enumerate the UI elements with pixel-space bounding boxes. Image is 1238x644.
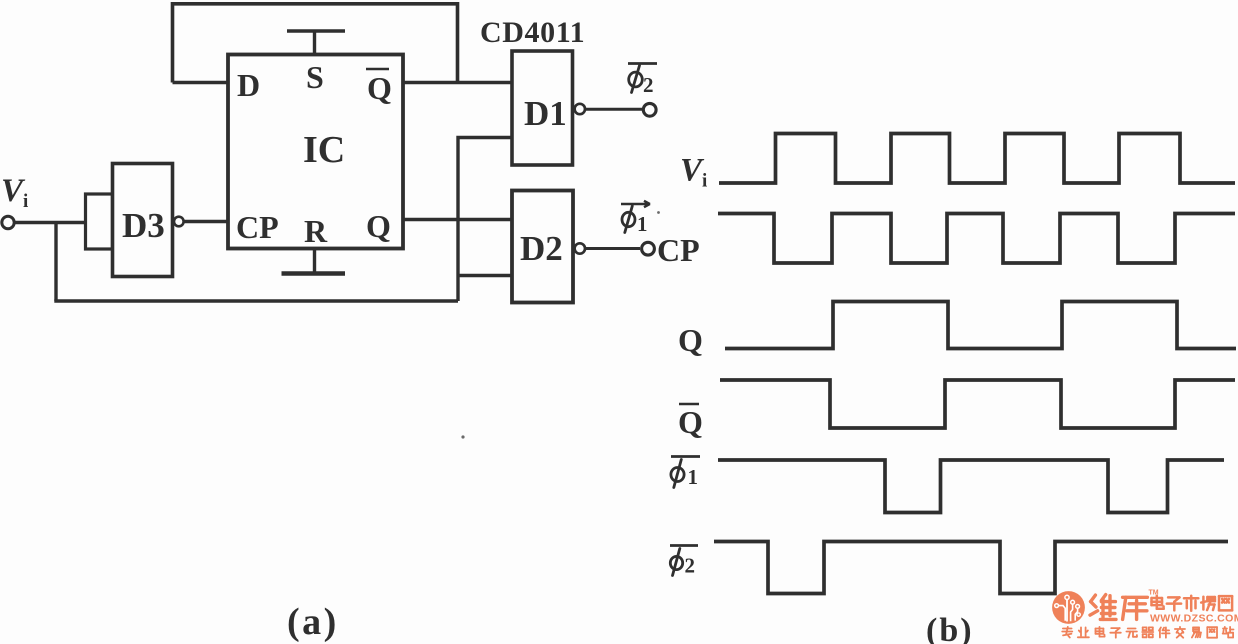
wire feedback loop Q-bar to D [173, 4, 458, 83]
NAND D3 input tab [86, 194, 113, 249]
waveform Q trace [725, 302, 1236, 349]
wire Q-bar to D1 [403, 81, 512, 84]
svg-text:R: R [304, 213, 328, 249]
waveform phi2-bar trace [714, 542, 1228, 594]
set terminal S stem [313, 31, 316, 55]
wire riser to D2 input [458, 274, 512, 277]
wire Vi to D3 [15, 221, 86, 224]
wire Vi branch down [54, 223, 57, 302]
input terminal Vi [2, 216, 14, 228]
waveform phi1-bar trace [718, 460, 1224, 513]
svg-text:Q: Q [678, 404, 703, 440]
waveform Q-bar label [679, 403, 699, 406]
svg-text:D1: D1 [524, 94, 567, 133]
svg-text:D2: D2 [520, 229, 563, 268]
wire D2 output [585, 247, 640, 250]
watermark slogan [1062, 627, 1233, 638]
svg-text:WWW.DZSC.COM: WWW.DZSC.COM [1150, 613, 1238, 625]
svg-text:Vi: Vi [1, 173, 28, 212]
terminal phi2 [643, 103, 656, 116]
watermark brand text 维库 [1090, 595, 1147, 620]
D3 output bubble [174, 217, 184, 227]
waveform CP trace [718, 214, 1235, 264]
wire D3 to CP pin [184, 220, 229, 223]
svg-text:Q: Q [366, 208, 391, 244]
svg-text:CD4011: CD4011 [480, 16, 585, 49]
svg-text:IC: IC [303, 129, 345, 171]
label phi2-bar [628, 62, 657, 65]
NAND D1 [512, 51, 573, 165]
svg-text:Q: Q [678, 322, 703, 358]
svg-text:1: 1 [688, 465, 699, 489]
svg-text:(b): (b) [926, 612, 974, 644]
svg-text:(a): (a) [287, 601, 339, 643]
watermark logo circle [1052, 591, 1085, 624]
NAND D3 [113, 164, 173, 277]
svg-text:D3: D3 [122, 206, 165, 245]
waveform Vi trace [719, 134, 1235, 184]
terminal phi1/CP [642, 242, 655, 255]
wire bottom rail [54, 299, 458, 302]
svg-text:Q: Q [367, 70, 392, 106]
D1 output bubble [575, 104, 585, 114]
D2 output bubble [575, 243, 585, 253]
reset terminal R stem [313, 249, 316, 274]
svg-text:1: 1 [637, 212, 648, 236]
flip-flop IC body [228, 55, 403, 249]
svg-text:D: D [237, 67, 260, 103]
waveform Q-bar trace [720, 380, 1235, 428]
waveform phi2-bar label [670, 544, 698, 547]
wire D input [173, 81, 229, 84]
svg-text:S: S [306, 59, 324, 95]
NAND D2 [512, 191, 573, 303]
label phi1-bar with arrow [621, 201, 650, 207]
svg-text:2: 2 [685, 554, 696, 578]
wire Q to D2 [403, 218, 512, 221]
svg-text:CP: CP [657, 232, 700, 268]
stray mark [461, 435, 464, 438]
wire D1 output [585, 108, 642, 111]
stray mark [657, 211, 660, 214]
waveform phi1-bar label [671, 455, 700, 458]
svg-text:2: 2 [643, 73, 654, 97]
svg-text:Vi: Vi [680, 153, 707, 192]
reset terminal R bar [282, 271, 346, 276]
svg-text:CP: CP [236, 209, 279, 245]
set terminal S bar [287, 29, 345, 33]
wire Vi riser to D1 input [458, 138, 512, 302]
watermark text dianzishichangwang [1152, 596, 1233, 611]
